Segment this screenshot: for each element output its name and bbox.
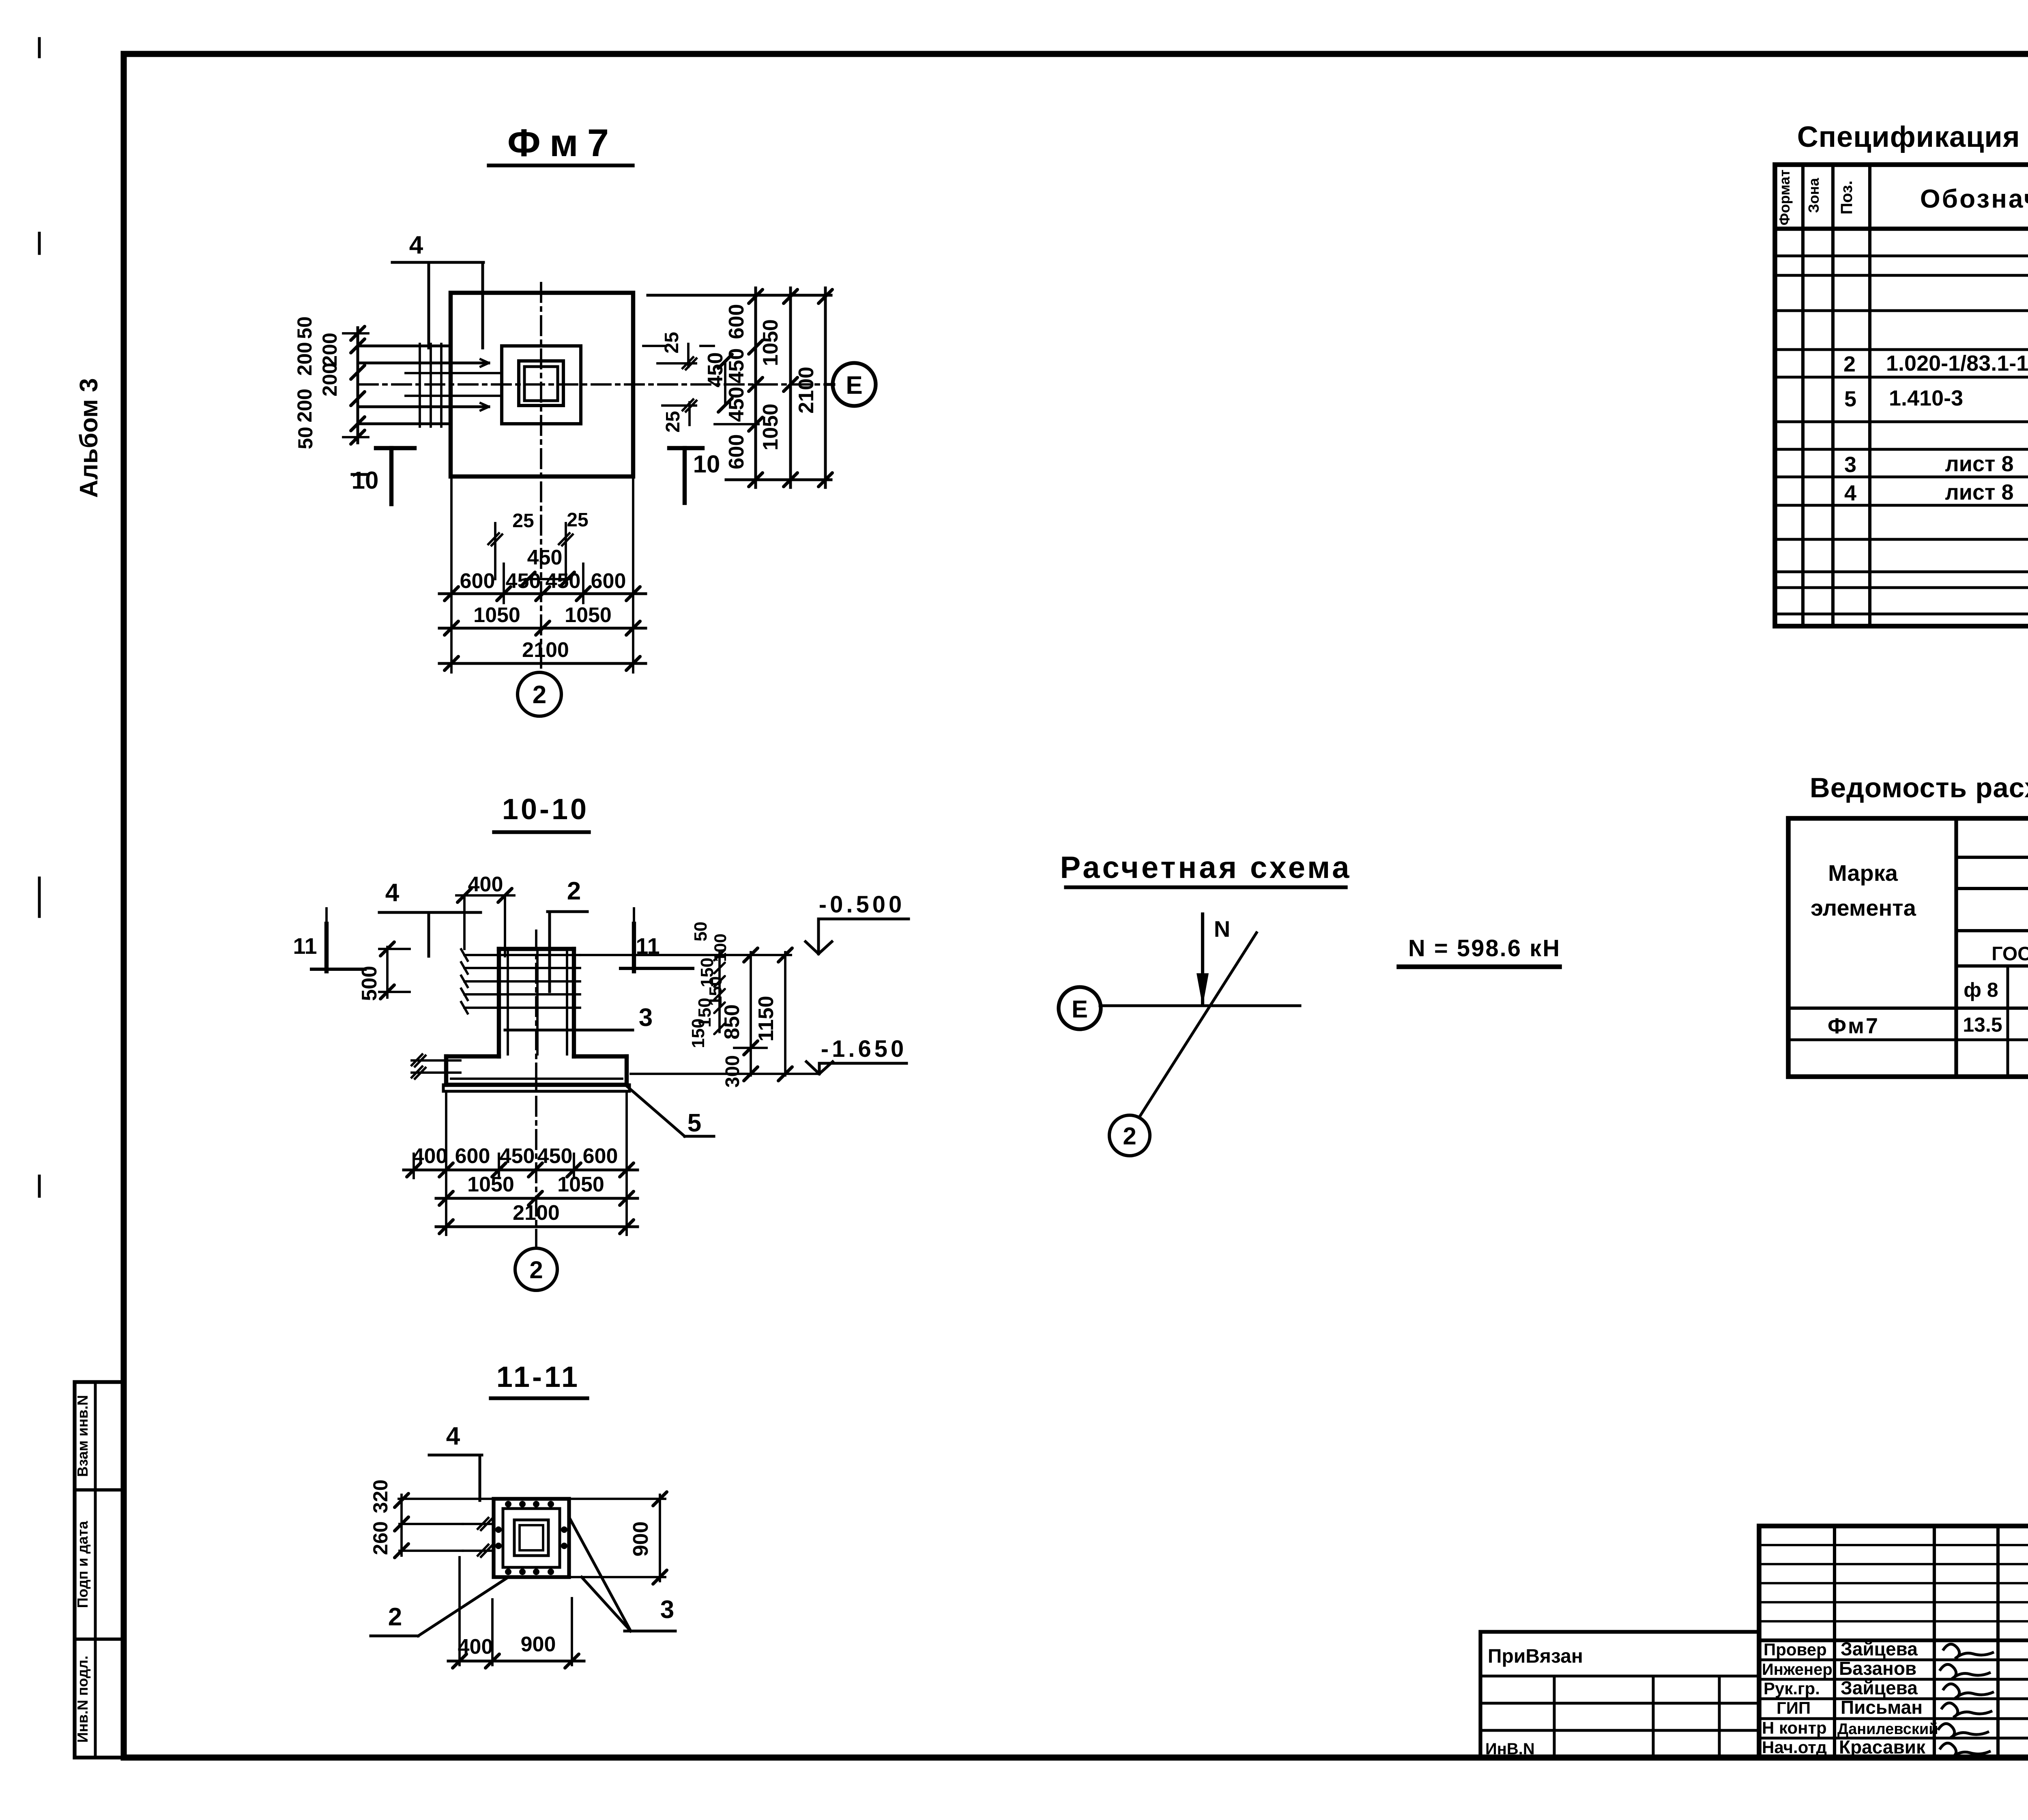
svg-text:3: 3 [660, 1596, 674, 1624]
scheme: axis circle 2 [1109, 1115, 1150, 1156]
svg-text:1050: 1050 [467, 1173, 514, 1196]
svg-text:2: 2 [529, 1256, 543, 1283]
svg-text:ИнВ.N: ИнВ.N [1485, 1740, 1535, 1758]
svg-text:1050: 1050 [473, 603, 520, 627]
spec table column lines [1801, 165, 1805, 626]
scheme: axis E horizontal line [1100, 1004, 1300, 1007]
10-10: bottom dim chain 2100 [436, 1225, 638, 1228]
steel table: diameter header row line [1956, 964, 2028, 968]
plan: right dim line 2100 [824, 288, 827, 487]
svg-text:Формат: Формат [1776, 170, 1793, 225]
svg-text:2: 2 [567, 877, 581, 905]
plan: column anchor double square [519, 361, 563, 406]
plan: right dim line 1050/1050 [789, 288, 792, 487]
svg-text:1050: 1050 [759, 403, 782, 451]
svg-text:400: 400 [458, 1635, 493, 1659]
plan: pedestal outline [502, 346, 581, 424]
10-10: stem centerline [535, 931, 537, 1097]
svg-text:Письман: Письман [1841, 1697, 1923, 1718]
svg-text:5: 5 [1844, 387, 1856, 411]
title block main vertical lines [1833, 1526, 1836, 1758]
svg-text:-0.500: -0.500 [819, 891, 905, 918]
svg-text:1050: 1050 [557, 1173, 604, 1196]
svg-text:ГИП: ГИП [1777, 1698, 1811, 1717]
svg-text:Поз.: Поз. [1838, 180, 1856, 215]
svg-text:4: 4 [409, 231, 423, 259]
svg-text:Расчетная схема: Расчетная схема [1060, 850, 1352, 885]
svg-text:ПриВязан: ПриВязан [1488, 1646, 1583, 1667]
svg-text:200: 200 [318, 333, 341, 366]
svg-text:2: 2 [533, 681, 546, 709]
10-10: pedestal stem outline [499, 947, 574, 951]
svg-text:ГОСТ 5781- 82: ГОСТ 5781- 82 [1991, 943, 2028, 965]
svg-text:Подп и дата: Подп и дата [74, 1521, 91, 1608]
10-10: lean concrete base line [443, 1090, 629, 1093]
svg-text:ф 8: ф 8 [1964, 979, 1998, 1001]
scheme: axis circle E [1059, 987, 1101, 1029]
svg-text:10-10: 10-10 [502, 793, 589, 826]
svg-text:50: 50 [691, 922, 711, 942]
scheme: force N arrow [1201, 914, 1204, 1005]
svg-text:4: 4 [385, 879, 400, 907]
10-10: right extension lines [580, 954, 791, 956]
title block signatures [1943, 1644, 1994, 1659]
spec table header bottom line [1775, 227, 2028, 231]
svg-text:50: 50 [293, 316, 316, 339]
svg-text:2: 2 [1843, 352, 1856, 376]
plan: foundation slab outline 2100x2100 [451, 293, 633, 476]
svg-text:4: 4 [446, 1422, 460, 1450]
svg-text:300: 300 [722, 1055, 743, 1088]
svg-text:3: 3 [1844, 453, 1856, 477]
svg-text:1.410-3: 1.410-3 [1889, 386, 1963, 410]
plan: axis circle 2 [518, 672, 561, 716]
11-11: pedestal outer square [494, 1499, 569, 1577]
scheme: axis 2 diagonal line [1141, 933, 1257, 1115]
svg-text:Инженер: Инженер [1762, 1661, 1833, 1678]
svg-text:200: 200 [293, 342, 316, 376]
svg-text:450: 450 [506, 569, 541, 593]
svg-text:600: 600 [455, 1144, 490, 1168]
left margin fold dashes [38, 39, 41, 57]
svg-text:25: 25 [661, 332, 683, 353]
svg-text:600: 600 [591, 569, 626, 593]
steel table outer border [1788, 818, 2028, 1077]
10-10: horizontal stirrup rebar lines [464, 954, 580, 956]
svg-text:260: 260 [369, 1521, 392, 1555]
svg-text:Провер: Провер [1764, 1640, 1827, 1659]
svg-text:600: 600 [583, 1144, 618, 1168]
svg-text:5: 5 [687, 1109, 701, 1137]
svg-text:Данилевский: Данилевский [1837, 1721, 1938, 1738]
svg-text:10: 10 [352, 467, 379, 494]
svg-text:11: 11 [293, 933, 317, 959]
plan: bottom dim chain 600/450/450/600 [439, 592, 646, 595]
10-10: leader 5 [627, 1086, 685, 1136]
10-10: axis circle 2 [535, 1097, 537, 1248]
11-11: left dim 320/260 [399, 1498, 494, 1500]
11-11: left rebar outlet lines [463, 1523, 494, 1525]
svg-text:Базанов: Базанов [1839, 1658, 1916, 1679]
left sidebar stamp table [75, 1382, 124, 1758]
svg-text:150: 150 [688, 1018, 708, 1048]
svg-text:400: 400 [412, 1144, 448, 1168]
svg-text:450: 450 [527, 546, 563, 569]
11-11: anchor double square [514, 1520, 548, 1556]
steel table: Марка элемента column line [1954, 818, 1958, 1077]
svg-text:900: 900 [521, 1633, 556, 1656]
plan: right dim line 600/450/450/600 [754, 288, 757, 487]
svg-text:элемента: элемента [1811, 895, 1916, 921]
svg-text:500: 500 [358, 966, 381, 1001]
svg-text:200: 200 [318, 363, 341, 396]
10-10: bottom dim chain 1050/1050 [436, 1197, 638, 1200]
10-10: stirrup spacing dim line [718, 953, 721, 1032]
plan: inner dim 25 25 450 below square [494, 523, 496, 579]
steel table: header bottom line [1788, 1007, 2028, 1010]
svg-text:2: 2 [388, 1603, 402, 1631]
svg-text:Зайцева: Зайцева [1841, 1638, 1918, 1659]
10-10: slab left rebar outlet lines [412, 1059, 460, 1062]
svg-text:Е: Е [846, 371, 862, 399]
svg-text:Зайцева: Зайцева [1841, 1677, 1918, 1698]
svg-text:2100: 2100 [522, 638, 569, 662]
svg-text:450: 450 [537, 1144, 573, 1168]
svg-text:Зона: Зона [1805, 178, 1822, 213]
svg-text:N: N [1214, 916, 1230, 942]
svg-text:25: 25 [567, 509, 588, 531]
svg-text:13.5: 13.5 [1963, 1013, 2002, 1036]
svg-text:600: 600 [460, 569, 495, 593]
title block staff row lines [1759, 1659, 2028, 1661]
svg-text:1050: 1050 [759, 319, 782, 366]
plan: bottom dim chain 2100 [439, 662, 646, 665]
svg-text:1050: 1050 [565, 603, 612, 627]
svg-text:25: 25 [662, 411, 684, 432]
10-10: dim 1150 [784, 952, 786, 1075]
title block outer border [1759, 1526, 2028, 1758]
steel table: data row line [1788, 1039, 2028, 1041]
svg-text:лист 8: лист 8 [1945, 480, 2013, 504]
11-11: bottom dim 400/900 [458, 1557, 461, 1665]
svg-text:2: 2 [1123, 1122, 1136, 1150]
svg-text:50: 50 [294, 427, 317, 449]
steel table: ГОСТ row line [1956, 929, 2028, 932]
10-10: bottom dim chain 400/600/450/450/600 [404, 1169, 638, 1172]
svg-text:Нач.отд: Нач.отд [1762, 1738, 1827, 1757]
svg-text:Инв.N подл.: Инв.N подл. [74, 1656, 91, 1743]
11-11: stirrup square [503, 1509, 560, 1567]
spec table outer border [1775, 165, 2028, 626]
svg-text:4: 4 [1844, 481, 1856, 505]
plan: rebar cross ticks in band [419, 344, 421, 427]
plan: left dimension line 50/200/200/200/200/50 [357, 328, 359, 443]
svg-text:450: 450 [500, 1144, 535, 1168]
plan: horizontal centerline axis E [359, 383, 832, 386]
bound note table Привязан [1480, 1632, 1759, 1758]
10-10: bottom mesh line [451, 1077, 622, 1080]
svg-text:400: 400 [468, 873, 503, 896]
plan: bottom dim chain 1050/1050 [439, 627, 646, 630]
svg-text:3: 3 [639, 1004, 653, 1032]
11-11: right dim 900 [569, 1498, 665, 1500]
svg-text:Марка: Марка [1828, 860, 1898, 886]
svg-text:Фм7: Фм7 [1828, 1014, 1880, 1038]
svg-text:Альбом 3: Альбом 3 [75, 378, 103, 498]
plan: vertical centerline axis 2 [540, 283, 542, 672]
svg-text:1.020-1/83.1-1.0.30-01: 1.020-1/83.1-1.0.30-01 [1886, 351, 2028, 376]
spec table row lines [1775, 255, 2028, 258]
plan: axis circle E [825, 383, 834, 386]
svg-text:лист 8: лист 8 [1945, 452, 2013, 476]
svg-text:Спецификация монолитных фундам: Спецификация монолитных фундаментов Фм7 [1797, 121, 2028, 153]
svg-text:Н контр: Н контр [1762, 1718, 1827, 1737]
svg-text:450: 450 [725, 348, 748, 384]
plan: bottom extension lines [450, 479, 453, 672]
svg-text:Красавик: Красавик [1839, 1736, 1926, 1758]
svg-text:Взам инв.N: Взам инв.N [74, 1395, 91, 1477]
svg-text:900: 900 [629, 1522, 653, 1557]
svg-text:Ведомость расхода стали на оди: Ведомость расхода стали на один элемент,… [1810, 772, 2028, 803]
svg-text:1150: 1150 [754, 996, 778, 1042]
svg-text:Обозначение: Обозначение [1920, 184, 2028, 213]
svg-text:600: 600 [725, 434, 748, 470]
svg-text:11-11: 11-11 [496, 1361, 580, 1393]
steel table: diameter column lines [2007, 966, 2009, 1077]
plan: right extension lines [648, 294, 831, 297]
steel table: Арматура класса row line [1956, 887, 2028, 890]
svg-text:600: 600 [725, 304, 748, 339]
10-10: stem vertical rebars [507, 949, 509, 1054]
plan: column rebar outlet lines [360, 345, 451, 348]
svg-text:850: 850 [720, 1004, 744, 1040]
svg-text:10: 10 [693, 451, 720, 478]
svg-text:25: 25 [512, 510, 534, 532]
title block upper mini rows [1759, 1544, 2028, 1546]
svg-text:Рук.гр.: Рук.гр. [1764, 1679, 1820, 1698]
svg-text:-1.650: -1.650 [821, 1036, 907, 1062]
svg-text:Фм7: Фм7 [507, 121, 618, 165]
10-10: bottom extension lines [412, 1154, 415, 1178]
11-11: rebar section dots [505, 1501, 511, 1507]
10-10: dim 850/300 [750, 952, 752, 1075]
svg-text:200: 200 [293, 388, 316, 422]
steel table: Изделия арматурные row line [1956, 856, 2028, 859]
svg-text:N = 598.6 кН: N = 598.6 кН [1408, 935, 1561, 962]
svg-text:320: 320 [369, 1479, 392, 1513]
svg-text:2100: 2100 [795, 367, 818, 414]
10-10: slab outline [446, 1054, 499, 1058]
svg-text:450: 450 [704, 352, 727, 388]
svg-text:450: 450 [546, 569, 581, 593]
svg-text:Е: Е [1072, 996, 1088, 1023]
